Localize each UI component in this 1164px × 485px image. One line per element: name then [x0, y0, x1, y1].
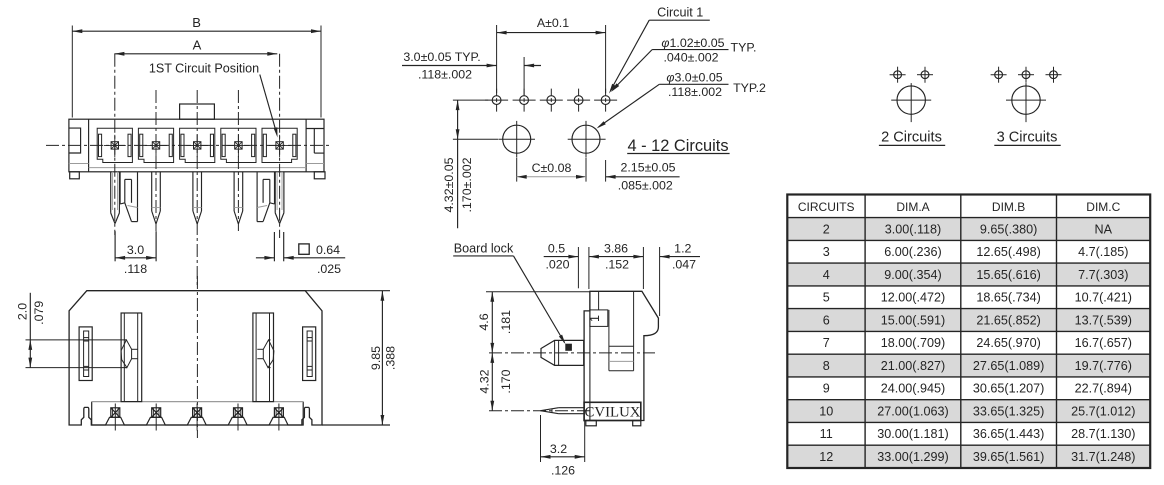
svg-text:7.7(.303): 7.7(.303) [1078, 268, 1128, 282]
svg-text:28.7(1.130): 28.7(1.130) [1071, 427, 1135, 441]
table: data row circuits 2 [823, 222, 1113, 236]
side view: left foot [586, 421, 597, 426]
dimension 4.32 vertical line with arrows [490, 353, 494, 411]
svg-text:.388: .388 [384, 346, 398, 370]
front view: solder pin 4 [234, 172, 243, 224]
side view: board lock black mark [566, 344, 572, 350]
side view: body outline [584, 291, 658, 420]
svg-text:.118: .118 [124, 262, 147, 276]
table: data row circuits 6 [823, 313, 1132, 327]
dimension label .085±.002 [618, 179, 673, 193]
svg-text:8: 8 [823, 359, 830, 373]
label Circuit 1 with leader arrow [609, 6, 710, 94]
svg-text:9.85: 9.85 [369, 346, 383, 370]
front view: contact pin 5 (square with X) [269, 135, 291, 157]
dimension 3.0 line with arrows [115, 256, 156, 260]
svg-text:4.32±0.05: 4.32±0.05 [442, 157, 456, 212]
dimension 9.85 extension lines [305, 291, 390, 425]
dimension label 4.32 (rotated) [478, 369, 492, 393]
front view: vertical centerline pin4 [237, 90, 239, 231]
dimension 4.32±0.05 vertical line with arrows [456, 100, 460, 228]
bottom view: right side retention slot [303, 327, 316, 381]
table: data row circuits 9 [823, 382, 1132, 396]
dimension label 2.0 (rotated) [16, 303, 30, 320]
front view: right wall step detail [306, 129, 324, 164]
svg-text:6.00(.236): 6.00(.236) [884, 245, 941, 259]
svg-text:A±0.1: A±0.1 [537, 16, 569, 30]
dimension A±0.1 line with arrows [497, 31, 606, 35]
svg-text:22.7(.894): 22.7(.894) [1075, 382, 1132, 396]
side view top dimension extension lines [578, 247, 659, 316]
label 2 Circuits (underlined) [879, 130, 945, 146]
svg-text:21.00(.827): 21.00(.827) [881, 359, 945, 373]
front view: circuit cavity 5 [262, 128, 297, 162]
side view: inner mating slot [609, 291, 634, 370]
svg-text:.170: .170 [499, 369, 513, 393]
bottom view: solder pin 5 (square with X) [274, 404, 283, 431]
dimension label .079 (rotated) [32, 301, 46, 325]
dimension C±0.08 extension lines [517, 158, 586, 182]
svg-text:9: 9 [823, 382, 830, 396]
pcb pattern: small hole circuit 1 [594, 89, 617, 112]
svg-text:33.00(1.299): 33.00(1.299) [877, 450, 948, 464]
dimension B line with arrows [72, 29, 321, 33]
svg-text:13.7(.539): 13.7(.539) [1075, 313, 1132, 327]
pcb pattern: small hole circuit 4 [513, 89, 536, 112]
svg-text:18.00(.709): 18.00(.709) [881, 336, 945, 350]
bottom view: solder pin 3 (square with X) [193, 404, 202, 431]
front view: left wall step detail [69, 128, 89, 163]
svg-text:4.6: 4.6 [477, 313, 491, 330]
svg-text:CIRCUITS: CIRCUITS [798, 200, 855, 214]
table: grid lines [787, 195, 1150, 469]
dimension A line with arrows [114, 52, 277, 56]
front view: top polarizing tab [180, 104, 215, 119]
dimension 9.85 line with arrows [381, 291, 385, 425]
pcb pattern: large hole right [568, 121, 606, 157]
svg-text:0.64: 0.64 [316, 243, 340, 257]
front view: contact pin 4 (square with X) [227, 135, 249, 157]
3-circuits pattern: small hole left [991, 67, 1007, 83]
svg-text:3.2: 3.2 [550, 442, 567, 456]
label 3 Circuits (underlined) [994, 130, 1060, 146]
svg-text:DIM.B: DIM.B [992, 200, 1025, 214]
svg-text:4.32: 4.32 [478, 369, 492, 393]
svg-text:7: 7 [823, 336, 830, 350]
table: header row labels [798, 200, 1121, 214]
svg-text:C±0.08: C±0.08 [532, 161, 572, 175]
svg-text:15.65(.616): 15.65(.616) [976, 268, 1040, 282]
bottom view: right board-lock hexagon (mirrored) [257, 340, 274, 368]
table: shaded rows [787, 218, 1150, 468]
svg-text:10: 10 [819, 405, 833, 419]
bottom view: left board-lock hexagon [121, 340, 138, 368]
svg-text:24.00(.945): 24.00(.945) [881, 382, 945, 396]
dimension label .181 (rotated) [499, 310, 513, 334]
front view: circuit cavity 1 [97, 128, 132, 162]
svg-text:φ3.0±0.05: φ3.0±0.05 [666, 71, 722, 85]
svg-text:Circuit 1: Circuit 1 [657, 6, 703, 20]
svg-text:4.7(.185): 4.7(.185) [1078, 245, 1128, 259]
svg-text:10.7(.421): 10.7(.421) [1075, 291, 1132, 305]
dimension 3.0±0.05 lines with outside arrows [402, 64, 541, 68]
svg-text:12.65(.498): 12.65(.498) [976, 245, 1040, 259]
svg-text:B: B [192, 15, 201, 30]
svg-text:27.65(1.089): 27.65(1.089) [973, 359, 1044, 373]
svg-text:31.7(1.248): 31.7(1.248) [1071, 450, 1135, 464]
svg-text:3.86: 3.86 [604, 242, 628, 256]
dimension 4.32±0.05 extension lines [453, 100, 498, 139]
svg-text:DIM.A: DIM.A [896, 200, 929, 214]
dimension 3.2 extension lines [541, 415, 585, 462]
dimension label 0.5 / .020 [545, 242, 569, 272]
table: data row circuits 4 [823, 268, 1129, 282]
front view: horizontal centerline [46, 144, 332, 146]
front view: contact pin 3 (square with X) [186, 135, 208, 157]
side view left dimension extension lines [486, 291, 590, 293]
dimension 3.2 line with arrows [541, 455, 585, 459]
dimension 2.15±0.05 line with arrow [606, 175, 680, 179]
svg-text:Board lock: Board lock [454, 241, 514, 255]
pcb pattern: small hole circuit 2 [567, 89, 590, 112]
front view: circuit cavity 3 [180, 128, 215, 162]
side view: horizontal centerline upper [489, 352, 655, 354]
svg-text:30.65(1.207): 30.65(1.207) [973, 382, 1044, 396]
dimension 0.64 extension lines [274, 232, 283, 261]
svg-text:25.7(1.012): 25.7(1.012) [1071, 405, 1135, 419]
svg-text:2.15±0.05: 2.15±0.05 [620, 161, 675, 175]
dimension B label [192, 15, 201, 30]
svg-text:3.0±0.05 TYP.: 3.0±0.05 TYP. [403, 50, 480, 64]
dimension 4.6 vertical line with arrows [490, 292, 494, 353]
dimension 3.0 extension lines [115, 231, 156, 261]
3-circuits pattern: large hole [1006, 83, 1046, 122]
bottom view: pin band outline with pin notches [92, 402, 304, 425]
front view: board-lock leg group under cavity 5 (mirrored) [257, 172, 284, 224]
svg-text:19.7(.776): 19.7(.776) [1075, 359, 1132, 373]
dimension label .025 [317, 262, 341, 276]
front view: solder pin 3 [193, 172, 202, 224]
label 1ST Circuit Position with leader arrow [149, 61, 278, 137]
front view: vertical centerline pin3 [196, 90, 198, 288]
callout φ1.02±0.05 / .040±.002 TYP. [611, 36, 756, 92]
dimension label 9.85 (rotated) [369, 346, 383, 370]
dimension 0.5 lines with outside arrows [544, 255, 579, 259]
svg-text:2: 2 [823, 222, 830, 236]
dimension label 3.86 / .152 [604, 242, 629, 272]
svg-text:.170±.002: .170±.002 [460, 157, 474, 212]
dimension 3.86 line with arrows [589, 255, 644, 259]
dimension A label [193, 38, 202, 53]
front view: vertical centerline pin2 [155, 90, 157, 231]
svg-text:.118±.002: .118±.002 [418, 68, 472, 82]
svg-text:.079: .079 [32, 301, 46, 325]
dimension label 3.2 [550, 442, 567, 456]
pcb pattern: small hole circuit 5 [485, 89, 508, 112]
dimension 2.0 extension lines to hexagon [26, 340, 127, 368]
dimension A±0.1 extension lines [497, 25, 606, 93]
dimension label .388 (rotated) [384, 346, 398, 370]
3-circuits pattern: small hole right [1046, 67, 1062, 83]
svg-text:CVILUX: CVILUX [585, 405, 641, 421]
side view: solder pin (pointed) [541, 408, 585, 414]
pcb pattern: large hole left [498, 121, 535, 157]
side view: CVILUX logo box [584, 402, 641, 420]
svg-text:.020: .020 [545, 258, 569, 272]
front view: circuit cavity 4 [221, 128, 256, 162]
svg-text:.085±.002: .085±.002 [618, 179, 673, 193]
svg-text:12: 12 [819, 450, 833, 464]
svg-text:3 Circuits: 3 Circuits [997, 130, 1058, 146]
svg-text:36.65(1.443): 36.65(1.443) [973, 427, 1044, 441]
2-circuits pattern: small hole right [917, 67, 933, 83]
callout φ3.0±0.05 / .118±.002 TYP.2 [597, 71, 767, 129]
svg-text:30.00(1.181): 30.00(1.181) [877, 427, 948, 441]
dimension 3.0±0.05 TYP extension lines [523, 57, 525, 95]
svg-text:1ST Circuit Position: 1ST Circuit Position [149, 61, 259, 75]
svg-text:TYP.2: TYP.2 [733, 81, 766, 95]
svg-text:3.0: 3.0 [127, 243, 144, 257]
dimension 2.0 line with arrows [28, 293, 32, 368]
bottom view: solder pin 2 (square with X) [152, 404, 161, 431]
table: data row circuits 11 [820, 427, 1136, 441]
dimension label 3.0 [127, 243, 144, 257]
dimension label .118 [124, 262, 147, 276]
side view: pin centerline [489, 410, 592, 412]
label 4 - 12 Circuits (underlined) [627, 137, 729, 155]
svg-text:1: 1 [588, 315, 602, 322]
2-circuits pattern: small hole left [890, 67, 906, 83]
bottom view: solder pin 4 (square with X) [234, 404, 243, 431]
dimension label 2.15±0.05 [620, 161, 675, 175]
front view: left mounting tab under body [70, 172, 80, 179]
dimension B extension lines [72, 26, 321, 118]
dimension label .170 (rotated) [499, 369, 513, 393]
svg-text:9.65(.380): 9.65(.380) [980, 222, 1037, 236]
table: data row circuits 12 [819, 450, 1135, 464]
dimension C±0.08 line with arrows [517, 175, 586, 179]
side view: board lock bullet [541, 340, 584, 365]
pcb pattern: small hole circuit 3 [540, 89, 563, 112]
front view: vertical centerline pin1 [114, 54, 116, 235]
svg-text:.047: .047 [672, 258, 696, 272]
dimension label C±0.08 [532, 161, 572, 175]
front view: circuit cavity 2 [138, 128, 173, 162]
table: data row circuits 5 [823, 291, 1132, 305]
front view: vertical centerline pin5 [279, 54, 281, 238]
svg-text:9.00(.354): 9.00(.354) [884, 268, 941, 282]
bottom view: left board-lock slot [121, 313, 142, 402]
svg-text:.152: .152 [605, 258, 629, 272]
svg-text:27.00(1.063): 27.00(1.063) [877, 405, 948, 419]
dimension label .170±.002 (rotated) [460, 157, 474, 212]
dimension label 4.32±0.05 (rotated) [442, 157, 456, 212]
front view: right mounting tab under body [314, 172, 325, 179]
svg-text:DIM.C: DIM.C [1086, 200, 1120, 214]
svg-text:3: 3 [823, 245, 830, 259]
front view: board-lock leg group under cavity 1 [111, 172, 138, 224]
front view: contact pin 2 (square with X) [145, 135, 167, 157]
square symbol for 0.64 [299, 244, 309, 254]
side view: circuit-1 marker box with rotated 1 [588, 291, 608, 326]
bottom view: solder pin 1 (square with X) [111, 404, 120, 431]
bottom view: body outline with chamfered corners and bottom notches [69, 291, 322, 425]
svg-text:φ1.02±0.05: φ1.02±0.05 [661, 36, 724, 50]
svg-text:6: 6 [823, 313, 830, 327]
svg-text:18.65(.734): 18.65(.734) [976, 291, 1040, 305]
svg-text:11: 11 [820, 427, 833, 441]
dimension label A±0.1 [537, 16, 569, 30]
svg-text:4 - 12 Circuits: 4 - 12 Circuits [627, 137, 728, 155]
svg-text:1.2: 1.2 [674, 242, 691, 256]
bottom view: vertical centerline [196, 276, 198, 438]
svg-text:33.65(1.325): 33.65(1.325) [973, 405, 1044, 419]
label Board lock with leader arrow [453, 241, 565, 344]
dimension label 4.6 (rotated) [477, 313, 491, 330]
svg-text:.181: .181 [499, 310, 513, 334]
dimension label 0.64 [316, 243, 340, 257]
front view: solder pin 2 [152, 172, 161, 224]
svg-text:.040±.002: .040±.002 [663, 51, 718, 65]
svg-text:39.65(1.561): 39.65(1.561) [973, 450, 1044, 464]
svg-text:24.65(.970): 24.65(.970) [976, 336, 1040, 350]
svg-text:2 Circuits: 2 Circuits [881, 130, 942, 146]
table: data row circuits 3 [823, 245, 1129, 259]
svg-text:NA: NA [1095, 222, 1113, 236]
svg-text:.126: .126 [551, 464, 575, 478]
svg-text:.025: .025 [317, 262, 341, 276]
dimension 2.15±0.05 extension line [605, 160, 607, 182]
svg-text:3.00(.118): 3.00(.118) [885, 222, 941, 236]
front view: connector body outline [69, 119, 324, 172]
svg-text:A: A [193, 38, 202, 53]
3-circuits pattern: small hole middle [1018, 67, 1034, 83]
table: data row circuits 8 [823, 359, 1132, 373]
svg-text:12.00(.472): 12.00(.472) [881, 291, 945, 305]
side view: right foot [633, 421, 641, 426]
svg-text:21.65(.852): 21.65(.852) [976, 313, 1040, 327]
dimension label 1.2 / .047 [672, 242, 696, 272]
2-circuits pattern: large hole [891, 83, 931, 122]
svg-text:5: 5 [823, 291, 830, 305]
svg-text:.118±.002: .118±.002 [668, 85, 722, 99]
table: data row circuits 7 [823, 336, 1132, 350]
svg-text:0.5: 0.5 [548, 242, 565, 256]
dimension label .118±.002 [418, 68, 472, 82]
dimension label 3.0±0.05 TYP. [403, 50, 480, 64]
table: data row circuits 10 [819, 405, 1135, 419]
front view: cavity floor line [89, 167, 307, 169]
svg-text:15.00(.591): 15.00(.591) [881, 313, 945, 327]
svg-text:4: 4 [823, 268, 830, 282]
svg-text:16.7(.657): 16.7(.657) [1075, 336, 1132, 350]
svg-text:2.0: 2.0 [16, 303, 30, 320]
dimension 0.64 lines with outside arrows [256, 256, 345, 260]
svg-text:TYP.: TYP. [731, 41, 757, 55]
dimension 1.2 line with outside arrow [660, 255, 700, 259]
bottom view: left side retention slot [79, 327, 92, 381]
bottom view: right board-lock slot [253, 313, 274, 402]
dimension label .126 [551, 464, 575, 478]
front view: contact pin 1 (square with X) [104, 135, 126, 157]
